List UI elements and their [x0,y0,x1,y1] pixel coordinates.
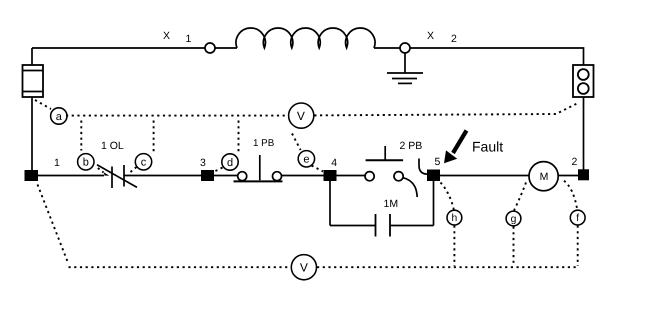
probe circles and meters [51,103,586,280]
probe a [51,108,67,124]
probe g [506,211,521,226]
lead bottom horizontal right [317,266,578,268]
terminal X1 [205,43,215,53]
lead motor to g [514,183,526,211]
svg-text:1 OL: 1 OL [101,140,124,152]
probe f [570,210,585,225]
pushbutton 2 PB (NO) [365,146,403,181]
svg-text:c: c [141,157,147,169]
wire top left horizontal X1 [32,47,205,49]
voltmeter V bottom [291,255,316,280]
svg-text:V: V [300,261,308,275]
transformer coil [236,28,375,48]
wire terminal X2 to right corner [410,48,584,65]
lead drop to b [80,121,82,151]
lead node 5 to h [441,183,454,210]
lead b to overload left [98,168,104,173]
lead c to overload right [131,167,137,172]
lead drop to c [153,121,155,153]
svg-text:g: g [511,214,517,225]
wire node 1 to overload [38,175,104,177]
1M branch left vertical [329,181,331,226]
svg-text:X: X [163,30,170,42]
wire node 3 to 1PB [214,175,238,177]
lead a to V top [66,115,288,117]
wire overload to node 3 [124,175,201,177]
lead node 1 down [38,185,69,265]
wire terminal X1 to coil [215,47,237,49]
svg-text:a: a [56,111,63,123]
node 1 [25,170,39,181]
lead h vertical [453,226,455,267]
wire motor to node 2 [558,175,578,177]
svg-text:5: 5 [435,156,441,168]
wire 1PB to node 4 [281,175,323,177]
ground [387,53,423,83]
svg-text:2: 2 [451,33,457,45]
lead V top to e [292,134,301,151]
svg-text:f: f [576,213,579,224]
dotted probe leads [35,100,578,267]
fuse F1 left rail [23,65,44,97]
probe d [222,154,238,170]
lead g vertical [513,227,515,267]
svg-text:V: V [297,109,305,123]
probe b [78,154,94,170]
svg-text:2 PB: 2 PB [400,140,423,152]
1M branch right vertical to node 5 [433,181,435,226]
svg-text:1: 1 [54,157,60,169]
wire right rail to node 2 [583,97,585,170]
wire coil to terminal X2 [374,47,400,49]
lead drop to d [238,121,240,153]
lead f vertical [577,226,579,267]
node 4 [324,170,337,181]
svg-text:1: 1 [186,33,192,45]
1M contact plates [376,214,391,237]
motor M [529,162,558,191]
svg-text:h: h [452,213,458,224]
voltmeter V top [289,103,314,128]
probe c [135,154,151,170]
svg-text:X: X [427,30,434,42]
svg-text:e: e [303,154,309,166]
arrow tick at wire end [104,172,110,175]
node 5 [427,170,440,182]
node 3 [201,170,214,181]
probe h [447,210,462,225]
svg-text:1 PB: 1 PB [253,138,275,149]
1M branch wire to plate [330,225,376,227]
svg-text:M: M [540,171,549,183]
svg-text:Fault: Fault [472,139,503,155]
pushbutton 1 PB (NC) [234,155,283,181]
svg-text:2: 2 [572,156,578,168]
lead d to node 3 [214,168,223,173]
broken wire curl from 2PB [403,178,417,197]
indicator unit right rail [573,65,594,97]
wire node 4 to 2PB [337,175,366,177]
lead fuse to a [35,100,51,109]
wire top left vertical to fuse [31,48,33,65]
lead motor to f [564,181,577,210]
overload contact 1 OL plates [111,167,113,189]
overload contact slash [97,165,137,188]
svg-text:4: 4 [331,157,337,169]
svg-text:d: d [227,157,233,169]
lead e to node 4 [312,166,324,172]
broken wire curl into node 5 [419,159,428,175]
lead bottom horizontal left [69,266,291,268]
svg-text:1M: 1M [384,198,399,210]
terminal X2 [400,43,410,53]
probe e [298,151,314,167]
node 2 [578,169,589,180]
wire left rail fuse to node 1 [31,97,33,170]
fault arrow [453,131,467,154]
svg-text:3: 3 [200,157,206,169]
1M branch wire from plate [390,225,434,227]
lead V top to indicator [314,104,577,116]
svg-text:b: b [83,157,89,169]
wire node 5 to motor [440,175,529,177]
